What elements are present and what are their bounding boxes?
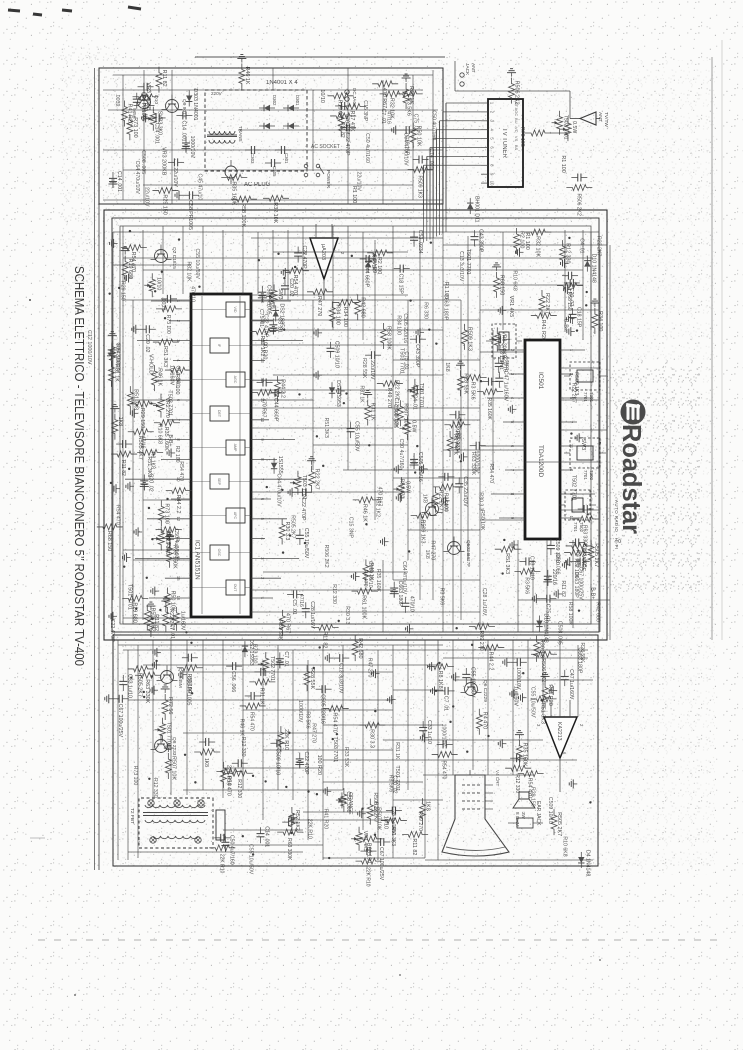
svg-text:1000/10V: 1000/10V [515,667,521,690]
svg-text:R12 330: R12 330 [331,584,337,604]
svg-text:10/10: 10/10 [382,816,388,830]
svg-text:C7 .01: C7 .01 [443,696,449,711]
svg-text:D303 1N4001: D303 1N4001 [192,88,198,120]
svg-text:POWER: POWER [325,170,331,189]
svg-text:BS: BS [514,145,519,151]
svg-text:R28 55K: R28 55K [361,358,367,379]
svg-text:C44 660P: C44 660P [364,264,370,288]
svg-text:0.5W: 0.5W [571,121,577,133]
svg-text:C33 1u/10: C33 1u/10 [426,720,432,744]
svg-text:C301: C301 [284,153,289,164]
svg-text:Q2 C1815: Q2 C1815 [171,247,177,269]
svg-text:R28 55K: R28 55K [309,668,315,689]
svg-text:C20 .02: C20 .02 [144,334,150,352]
svg-text:1K8: 1K8 [425,801,431,811]
svg-text:470 R67: 470 R67 [381,88,387,108]
svg-text:1K8: 1K8 [424,550,430,559]
svg-text:R42 680: R42 680 [594,602,600,622]
svg-text:R22 2K7: R22 2K7 [544,293,550,314]
svg-text:D302: D302 [272,95,277,106]
svg-text:R12 330: R12 330 [565,243,571,263]
svg-text:22u/10V: 22u/10V [172,167,178,187]
svg-text:R8 1K8: R8 1K8 [149,452,155,469]
svg-text:C28 1u/16V: C28 1u/16V [309,601,315,629]
svg-text:R58 100K: R58 100K [567,602,573,626]
svg-text:C50 4u7/160: C50 4u7/160 [398,439,404,469]
svg-text:R29 150: R29 150 [161,194,167,214]
svg-text:TV/TW: TV/TW [603,112,609,127]
svg-text:470 R67: 470 R67 [284,613,290,633]
svg-text:R51 3K3: R51 3K3 [504,553,510,574]
svg-text:BH001 D11: BH001 D11 [473,196,479,223]
svg-text:B-B+: B-B+ [589,587,595,599]
svg-text:47/16: 47/16 [298,594,304,607]
svg-text:C14 .001: C14 .001 [263,826,269,847]
svg-text:220/16: 220/16 [502,356,508,372]
svg-text:R54 470: R54 470 [488,464,494,484]
svg-text:C50 4u7/160: C50 4u7/160 [228,835,234,865]
svg-text:C509 10/10: C509 10/10 [274,748,280,775]
svg-text:C15 3NP: C15 3NP [362,100,368,122]
svg-text:R35 160K: R35 160K [375,569,381,593]
svg-text:IC1 AN5151N: IC1 AN5151N [194,540,201,580]
svg-text:AGC: AGC [514,108,519,117]
svg-text:R12 330: R12 330 [514,774,520,793]
svg-text:AFC: AFC [233,512,237,520]
svg-text:AC SOCKET: AC SOCKET [311,144,340,150]
svg-text:C508 .005: C508 .005 [556,621,562,645]
svg-text:47/16: 47/16 [139,436,145,449]
svg-text:R11 82: R11 82 [411,838,417,855]
svg-text:T502 7701: T502 7701 [563,115,569,140]
svg-text:C75 .01: C75 .01 [258,309,264,327]
svg-text:R47 270: R47 270 [316,296,322,316]
svg-text:C20 .02: C20 .02 [288,278,294,296]
svg-text:R10 6K8: R10 6K8 [511,271,517,291]
svg-text:Q502 B417F: Q502 B417F [465,540,471,567]
svg-text:0.5W: 0.5W [411,420,417,432]
svg-text:10/10: 10/10 [155,277,161,290]
svg-text:R35 160K: R35 160K [521,743,527,767]
svg-text:100 R20: 100 R20 [316,755,322,775]
svg-text:C53 .0234: C53 .0234 [454,429,460,453]
svg-text:TDA1200D: TDA1200D [537,445,544,477]
svg-text:VR1 4K5: VR1 4K5 [508,296,514,318]
svg-text:DC: DC [352,88,357,95]
svg-text:R52 1K2: R52 1K2 [374,497,380,517]
svg-text:SW3: SW3 [277,288,283,299]
svg-text:R32 10K: R32 10K [534,236,540,257]
svg-text:R54 470: R54 470 [225,775,231,795]
svg-text:R506 2K2: R506 2K2 [323,545,329,568]
svg-text:C44 660P: C44 660P [273,398,279,422]
svg-text:R1 100: R1 100 [560,155,566,172]
svg-text:R41 R20: R41 R20 [540,320,546,341]
svg-text:DET: DET [217,410,221,418]
svg-text:C50 4u7/160: C50 4u7/160 [364,133,370,163]
svg-text:R22 2K7: R22 2K7 [571,383,577,403]
svg-text:R54 470: R54 470 [249,712,255,731]
svg-text:R33 53K: R33 53K [343,747,349,768]
svg-text:C305: C305 [272,166,277,177]
svg-text:R10 6K8: R10 6K8 [562,836,568,856]
svg-text:C47 1u/160V: C47 1u/160V [568,669,574,700]
svg-text:R46 1K: R46 1K [239,719,245,737]
svg-text:C58 PR1005: C58 PR1005 [187,200,193,230]
svg-text:C28 1u/16V: C28 1u/16V [390,806,396,834]
svg-text:R30 3.3: R30 3.3 [344,606,350,624]
svg-text:R58 100K: R58 100K [386,326,392,350]
svg-text:C509 10/10: C509 10/10 [367,561,373,588]
svg-text:R2 100: R2 100 [519,231,525,248]
svg-text:R44 2.2: R44 2.2 [280,379,286,398]
svg-text:C14 .001: C14 .001 [174,365,180,386]
svg-text:1u/160V: 1u/160V [180,611,186,631]
svg-text:C18 15P: C18 15P [398,274,404,295]
svg-text:R509 1K3: R509 1K3 [417,176,423,198]
svg-text:C55 10u/50V: C55 10u/50V [469,667,475,698]
svg-text:R505 2K7: R505 2K7 [556,812,562,836]
svg-text:T501 7701: T501 7701 [166,722,172,747]
svg-text:DS2 1S953: DS2 1S953 [335,380,341,407]
svg-text:R11 82: R11 82 [120,460,126,476]
svg-text:R11 82: R11 82 [322,631,328,648]
svg-text:R509 1K3: R509 1K3 [466,327,472,351]
svg-text:10/10: 10/10 [319,89,325,103]
svg-text:C22 470P: C22 470P [344,132,350,156]
svg-text:AMP: AMP [233,444,237,452]
svg-text:R54 470: R54 470 [398,479,404,499]
svg-text:R10 6K8: R10 6K8 [157,424,163,444]
svg-text:47/16: 47/16 [385,111,391,124]
svg-text:R46 1K: R46 1K [244,67,250,85]
svg-text:R29 150: R29 150 [119,281,125,301]
svg-text:C75 .01: C75 .01 [412,114,418,132]
svg-text:R54 470: R54 470 [332,712,338,732]
svg-text:C53 .0234: C53 .0234 [417,230,423,254]
svg-text:V-HOLD: V-HOLD [148,354,154,374]
svg-text:R73 100: R73 100 [252,644,258,664]
svg-text:R34 100: R34 100 [342,306,348,326]
svg-text:TRANS: TRANS [238,126,243,142]
svg-text:R3 5K6: R3 5K6 [304,711,310,728]
svg-text:R41 R20: R41 R20 [547,684,553,705]
svg-text:R46 1K: R46 1K [156,368,162,386]
svg-text:3W: 3W [521,812,526,820]
svg-text:R51 3K3: R51 3K3 [540,703,546,724]
svg-text:C56 .066: C56 .066 [345,791,351,812]
svg-text:C505 220/16: C505 220/16 [417,452,423,482]
svg-text:C75 .01: C75 .01 [403,351,409,369]
svg-text:R22 2K7: R22 2K7 [314,469,320,490]
svg-text:22K R10: 22K R10 [283,729,289,750]
svg-text:R29 150: R29 150 [529,787,535,807]
svg-text:JACK: JACK [464,63,470,76]
svg-text:T502 7701: T502 7701 [269,656,275,681]
svg-text:22u/10V: 22u/10V [355,172,361,192]
svg-text:1K8: 1K8 [117,417,123,427]
svg-text:1u/160V: 1u/160V [169,365,175,385]
svg-text:R4 470: R4 470 [481,712,487,729]
svg-text:R6 330: R6 330 [423,302,429,319]
svg-text:R51 3K3: R51 3K3 [323,418,329,438]
svg-text:R54 470: R54 470 [178,461,184,481]
svg-text:C7 .01: C7 .01 [380,109,386,124]
svg-text:T301: T301 [589,392,594,403]
svg-text:D4 1N4148: D4 1N4148 [584,850,590,876]
svg-text:R35 160K: R35 160K [230,181,236,205]
svg-text:C505 220/16: C505 220/16 [402,313,408,343]
svg-text:220V: 220V [211,91,223,96]
svg-text:22u/10V: 22u/10V [143,187,149,207]
svg-text:C12 1000/10V: C12 1000/10V [86,330,92,365]
svg-text:R44 2.2: R44 2.2 [487,651,493,670]
svg-text:R2 100: R2 100 [174,446,180,463]
svg-text:R506 2K2: R506 2K2 [575,194,581,216]
svg-text:R17 47K: R17 47K [349,111,355,132]
svg-text:R30 3.3: R30 3.3 [539,639,545,658]
svg-text:10: 10 [490,181,495,186]
svg-text:R31 1K: R31 1K [359,385,365,403]
svg-text:R31 1K: R31 1K [370,403,376,421]
svg-text:R509 1K3: R509 1K3 [420,519,426,543]
svg-text:IC501: IC501 [537,372,544,390]
svg-text:C20 .02: C20 .02 [392,775,398,793]
svg-text:R8 1K8: R8 1K8 [437,671,443,689]
svg-text:T302: T302 [589,470,594,481]
svg-text:10: 10 [260,417,265,422]
svg-text:C509 10/10: C509 10/10 [547,797,553,824]
svg-text:ANT: ANT [597,112,603,122]
svg-text:R46 1K: R46 1K [370,253,376,271]
svg-text:C50 4u7/160: C50 4u7/160 [430,110,436,140]
svg-text:C64 470u/10V: C64 470u/10V [401,561,407,595]
svg-text:TV TUNER: TV TUNER [501,128,507,159]
svg-text:R32 10K: R32 10K [186,261,192,282]
svg-text:VID: VID [233,307,237,313]
svg-text:R52 1K2: R52 1K2 [294,810,300,831]
svg-text:AUTO RADIO - HI FI: AUTO RADIO - HI FI [614,500,619,550]
svg-text:R54 470: R54 470 [441,760,447,779]
svg-text:22K R10: 22K R10 [306,819,312,839]
svg-text:SEP: SEP [217,478,221,486]
svg-text:R61 100K: R61 100K [361,595,367,619]
svg-text:R506 2K2: R506 2K2 [514,81,520,105]
svg-text:B-B+: B-B+ [167,434,173,446]
svg-text:C7 .01: C7 .01 [169,624,175,639]
svg-text:R63 330K: R63 330K [144,679,150,703]
svg-text:BU: BU [514,118,519,124]
svg-text:22K R10: 22K R10 [365,867,371,887]
svg-text:R72 56: R72 56 [167,697,173,714]
svg-text:C55 10u/50V: C55 10u/50V [194,249,200,280]
svg-text:C67 100u/25V: C67 100u/25V [378,847,384,881]
svg-text:C43 390P: C43 390P [414,344,420,368]
svg-text:SW3: SW3 [580,438,586,450]
svg-text:R22 2K7: R22 2K7 [394,380,400,400]
svg-text:R507 10K: R507 10K [170,756,176,780]
svg-text:R28 55K: R28 55K [579,642,585,663]
svg-text:1N4001 X 4: 1N4001 X 4 [266,80,298,86]
svg-text:C64 470u/10V: C64 470u/10V [275,473,281,507]
svg-text:R51 3K3: R51 3K3 [162,346,168,367]
svg-text:C22 470P: C22 470P [109,619,115,643]
svg-text:.0039: .0039 [114,93,120,106]
svg-text:R30 3.3: R30 3.3 [368,729,374,748]
svg-text:C56 .066: C56 .066 [230,671,236,692]
svg-text:R73 100: R73 100 [163,503,169,523]
svg-text:C505 220/16: C505 220/16 [320,694,326,724]
svg-text:R50 10K: R50 10K [479,510,485,531]
svg-text:KA2213: KA2213 [556,722,562,741]
svg-text:C67 100u/25V: C67 100u/25V [117,704,123,738]
svg-text:C33 1u/10: C33 1u/10 [529,556,535,580]
svg-text:R34 100: R34 100 [334,304,340,324]
svg-text:C58 PR1005: C58 PR1005 [140,92,146,122]
svg-text:R12 330: R12 330 [240,737,246,757]
svg-text:OSC: OSC [217,549,221,557]
svg-text:R47 270: R47 270 [311,723,317,743]
svg-text:R58 100K: R58 100K [240,203,246,227]
svg-text:R73 100: R73 100 [132,117,138,137]
svg-text:22K R10: 22K R10 [218,854,224,874]
svg-text:R30 3.3: R30 3.3 [477,492,483,510]
svg-text:R63 330K: R63 330K [470,452,476,476]
svg-text:470/10: 470/10 [408,596,414,612]
svg-text:SVR3 3K0: SVR3 3K0 [156,111,162,135]
svg-text:1000/10V: 1000/10V [297,700,303,723]
svg-text:Roadstar: Roadstar [617,424,647,534]
svg-text:R30 3.3: R30 3.3 [284,522,290,541]
svg-text:R34 100: R34 100 [597,311,603,331]
svg-text:R12 330: R12 330 [152,778,158,798]
svg-text:C13 3u3/10V: C13 3u3/10V [458,251,464,282]
svg-text:VS: VS [514,136,519,142]
svg-text:T501 7701: T501 7701 [465,249,471,275]
svg-text:C4 .01: C4 .01 [578,238,584,253]
svg-text:Q7 945M: Q7 945M [177,668,183,688]
svg-text:AGC: AGC [233,376,237,384]
svg-text:R34 100: R34 100 [395,315,401,335]
svg-text:SVR3 3K0: SVR3 3K0 [164,531,170,555]
svg-text:R49 270: R49 270 [417,811,423,831]
svg-text:C509 10/10: C509 10/10 [334,341,340,368]
svg-text:R73 100: R73 100 [132,766,138,786]
svg-text:OUT: OUT [233,584,237,592]
svg-text:C58 PR1005: C58 PR1005 [186,676,192,706]
svg-text:C64 470u/10V: C64 470u/10V [402,132,408,166]
svg-text:R68 150: R68 150 [366,843,372,863]
svg-text:R22 2K7: R22 2K7 [595,236,601,256]
svg-text:R507 10K: R507 10K [375,807,381,831]
svg-text:12: 12 [176,516,181,521]
svg-text:B-B+: B-B+ [562,319,568,331]
svg-text:C64 470u/10V: C64 470u/10V [134,161,140,195]
svg-text:R54 470: R54 470 [114,505,120,525]
svg-text:R3 5K6: R3 5K6 [523,577,529,594]
svg-text:T502 7701: T502 7701 [570,475,576,501]
svg-text:R506 2K2: R506 2K2 [540,658,546,682]
svg-text:R31 1K: R31 1K [258,688,264,705]
svg-text:1K8: 1K8 [444,362,450,371]
svg-text:R3 5K6: R3 5K6 [439,588,445,605]
svg-text:15: 15 [176,576,181,581]
svg-text:R505 2K7: R505 2K7 [289,515,295,538]
svg-text:1K8: 1K8 [422,494,428,503]
svg-text:R31 1K: R31 1K [394,742,400,760]
svg-text:T501 7701: T501 7701 [127,584,133,610]
svg-text:R49 270: R49 270 [386,388,392,408]
svg-text:R31 1K: R31 1K [113,364,119,382]
svg-text:1000/10V: 1000/10V [441,724,447,747]
svg-text:1000/10V: 1000/10V [268,289,274,312]
svg-text:C22 470P: C22 470P [300,497,306,521]
svg-text:C28 1u/16V: C28 1u/16V [481,588,487,616]
svg-text:C74 .001: C74 .001 [428,148,434,169]
svg-text:22u/10V: 22u/10V [369,360,375,380]
svg-text:C55 10u/50V: C55 10u/50V [530,687,536,718]
svg-text:D301: D301 [295,95,300,106]
svg-text:R29 150: R29 150 [139,408,145,428]
svg-text:ANT: ANT [470,63,476,73]
svg-text:R3 5K6: R3 5K6 [470,382,476,400]
svg-text:R11 82: R11 82 [560,581,566,597]
svg-text:C20 .02: C20 .02 [568,288,574,306]
svg-text:C45 47u/10: C45 47u/10 [196,173,202,200]
svg-text:C303: C303 [250,153,255,164]
svg-text:C15 3NP: C15 3NP [347,517,353,539]
svg-text:7701: 7701 [583,392,588,402]
svg-text:470 R67: 470 R67 [261,398,267,417]
svg-text:VC: VC [514,127,519,133]
svg-text:D10 1N4148: D10 1N4148 [590,254,596,283]
svg-text:R50 10K: R50 10K [170,590,176,611]
svg-text:R32 10K: R32 10K [272,202,278,223]
svg-text:Q6 C2229: Q6 C2229 [482,680,488,702]
svg-text:R28 55K: R28 55K [462,373,468,394]
svg-text:R73 100: R73 100 [519,127,525,147]
svg-text:7701: 7701 [583,470,588,480]
svg-text:VR3 200KB: VR3 200KB [160,147,166,176]
svg-text:R47 270: R47 270 [430,541,436,561]
svg-text:R11 82: R11 82 [153,614,159,631]
svg-text:T501 7701: T501 7701 [418,383,424,408]
svg-text:C13 3u3/10V: C13 3u3/10V [337,663,343,694]
svg-text:R46 1K: R46 1K [362,504,368,522]
svg-text:R51 3K3: R51 3K3 [132,389,138,410]
svg-text:V4 CRT: V4 CRT [495,770,500,786]
svg-text:R54 470: R54 470 [130,252,136,272]
svg-text:470/10: 470/10 [189,286,195,302]
svg-text:C20 .02: C20 .02 [147,473,153,491]
svg-text:R41 R20: R41 R20 [322,809,328,830]
svg-text:C508 .005: C508 .005 [392,404,398,428]
svg-text:C55 10u/50V: C55 10u/50V [248,844,254,875]
svg-text:C14 .001: C14 .001 [180,120,186,141]
svg-text:R68 150: R68 150 [106,531,112,551]
svg-text:1000/10V: 1000/10V [189,136,195,159]
svg-text:R33 53K: R33 53K [277,620,283,641]
svg-text:R42 680: R42 680 [357,638,363,658]
svg-text:C35 22u/10V: C35 22u/10V [462,476,468,507]
svg-text:C43 390P: C43 390P [477,229,483,253]
svg-text:R44 2.2: R44 2.2 [175,495,181,514]
svg-text:1S1555: 1S1555 [277,456,283,474]
svg-text:1K8: 1K8 [203,758,209,767]
svg-text:C663 180P: C663 180P [442,294,448,320]
svg-text:.0039: .0039 [160,297,166,310]
svg-text:T2 FBT: T2 FBT [129,808,135,824]
